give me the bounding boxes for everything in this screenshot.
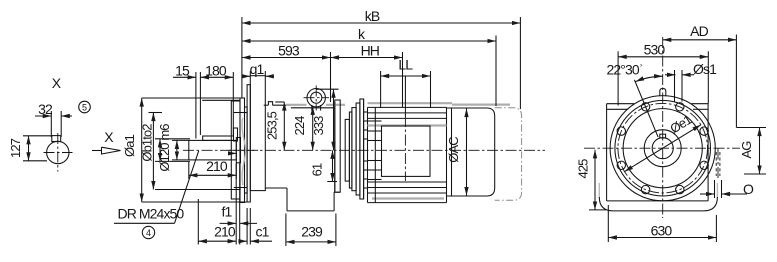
dimension 593: [242, 43, 331, 103]
svg-text:253,5: 253,5: [265, 111, 280, 140]
shaft collar: [236, 138, 240, 163]
svg-text:32: 32: [38, 101, 53, 117]
shaft clamp boss: [234, 128, 238, 141]
ref line Oa1 bottom: [142, 201, 251, 203]
ref lines Ob2: [149, 113, 241, 190]
breather tab: [660, 88, 666, 96]
dimension 127: [8, 136, 53, 161]
dimension AD: [663, 23, 737, 128]
svg-text:239: 239: [301, 224, 323, 240]
svg-text:kB: kB: [365, 8, 380, 24]
shaft bore circle: [652, 138, 673, 159]
svg-text:LL: LL: [398, 57, 413, 73]
dimension k: [242, 26, 496, 106]
dimension Oa1: [122, 98, 142, 202]
bolt holes: [617, 103, 708, 194]
hidden drain hole: [716, 149, 720, 181]
dimension Ob1to2: [140, 113, 191, 190]
gray bell curve main view: [242, 118, 246, 185]
centerline main view: [228, 149, 545, 151]
flange plate: [245, 107, 248, 193]
motor gray silhouette lines: [368, 103, 453, 198]
svg-text:22°30ʾ: 22°30ʾ: [606, 62, 642, 78]
adapter spacer: [356, 103, 360, 195]
svg-text:210: 210: [206, 158, 228, 174]
phantom extended motor: [452, 105, 522, 201]
dimension 210 (shaft length): [189, 158, 237, 179]
dimension kB: [242, 8, 521, 109]
base foot: [599, 183, 717, 211]
key on shaft: [203, 136, 234, 140]
square housing: [607, 104, 709, 201]
terminal box centerline: [404, 76, 406, 181]
output flange disc: [240, 98, 245, 203]
svg-text:DR M24x50: DR M24x50: [118, 206, 185, 222]
ref line hub top edge: [202, 99, 240, 101]
flange plate 2: [247, 85, 250, 202]
svg-text:180: 180: [205, 62, 227, 78]
flange outer circle: [610, 96, 715, 201]
stator block: [382, 126, 431, 176]
dimension HH: [331, 43, 403, 108]
dimension O: [700, 180, 754, 198]
recess circle: [623, 109, 702, 188]
eye bolt shank: [312, 105, 321, 111]
svg-text:210: 210: [214, 224, 236, 240]
dimension 253,5: [265, 102, 285, 150]
bearing shield lines: [368, 107, 382, 202]
dimension 61: [310, 150, 338, 181]
svg-text:Øs1: Øs1: [693, 61, 717, 77]
adapter ring 2: [349, 112, 352, 188]
svg-text:15: 15: [175, 62, 190, 78]
machined pad (gray): [286, 104, 345, 106]
svg-text:X: X: [104, 129, 114, 145]
adapter block: [352, 108, 356, 191]
hub circle: [644, 130, 681, 167]
gearbox end cap: [335, 100, 340, 192]
svg-text:593: 593: [278, 43, 300, 59]
svg-text:f1: f1: [222, 203, 233, 219]
svg-text:Øa1: Øa1: [122, 134, 137, 157]
main gear housing: [264, 102, 340, 211]
svg-text:61: 61: [310, 163, 325, 176]
svg-text:HH: HH: [361, 43, 379, 59]
dimension O120 m6: [157, 124, 177, 172]
dimension 425: [575, 150, 606, 210]
hollow shaft hub: [231, 101, 247, 199]
balloon 4: [142, 226, 154, 238]
svg-text:k: k: [358, 26, 366, 42]
front housing box: [250, 76, 265, 191]
dimension LL: [381, 57, 431, 109]
svg-text:Øe1: Øe1: [667, 112, 694, 137]
motor body with fins: [368, 107, 447, 202]
dimension 32: [35, 101, 72, 137]
svg-text:Øb1to2: Øb1to2: [140, 124, 155, 162]
dimension 224: [292, 106, 313, 150]
dimension 239: [286, 214, 336, 247]
shaft end circle: [47, 141, 69, 163]
dimension AG: [736, 128, 766, 175]
dimension OAC: [446, 109, 467, 196]
dimension 530: [618, 42, 708, 106]
ref line Oa1 top: [142, 97, 240, 99]
flange serration: [364, 99, 368, 199]
keyway in bore: [660, 134, 666, 138]
keyway square: [52, 136, 61, 142]
label X (detail title): [52, 75, 62, 91]
svg-text:630: 630: [651, 223, 673, 239]
dimension Os1: [665, 61, 717, 102]
dimension f1: [220, 164, 257, 245]
svg-text:4: 4: [146, 228, 151, 238]
svg-text:224: 224: [292, 116, 307, 136]
svg-text:ØAC: ØAC: [446, 137, 461, 163]
svg-text:q1: q1: [250, 61, 265, 77]
balloon 5: [79, 101, 91, 113]
dimension 15: [173, 62, 196, 138]
angular dimension 22deg30: [606, 62, 662, 138]
bolt circle (centerline): [618, 103, 708, 193]
fan cowl: [447, 108, 495, 196]
dimension 180: [200, 62, 233, 136]
svg-text:AG: AG: [739, 141, 754, 159]
adapter ring 1: [345, 119, 349, 181]
svg-text:127: 127: [8, 138, 23, 158]
shaft body: [172, 140, 236, 160]
dimension 210 (bottom): [198, 199, 236, 245]
view centerlines: [584, 37, 740, 218]
svg-text:333: 333: [311, 116, 326, 136]
dimension 333: [311, 89, 339, 150]
svg-text:O: O: [743, 181, 754, 197]
dimension Oe1: [625, 112, 701, 172]
dimension 630: [608, 205, 716, 242]
dimension q1: [243, 61, 272, 77]
svg-text:AD: AD: [690, 23, 708, 39]
svg-text:530: 530: [644, 42, 666, 58]
flange rim circle: [615, 100, 711, 196]
centerline shaft detail: [183, 149, 258, 151]
leader arrow on bore: [229, 152, 237, 154]
leader DR M24x50: [114, 151, 199, 224]
svg-text:X: X: [52, 75, 62, 91]
motor flange bell: [360, 99, 364, 199]
dimension c1: [241, 208, 273, 245]
view arrow X: [92, 129, 121, 154]
svg-text:c1: c1: [256, 224, 270, 240]
eye bolt: [304, 86, 330, 111]
svg-text:Ø120 m6: Ø120 m6: [157, 124, 172, 172]
svg-text:425: 425: [575, 159, 590, 179]
svg-text:5: 5: [82, 103, 87, 113]
centerlines of shaft end: [44, 133, 73, 172]
